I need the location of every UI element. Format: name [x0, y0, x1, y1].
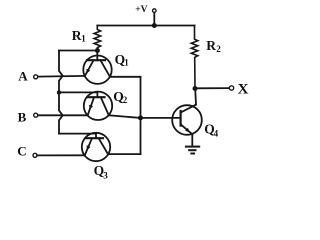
node input C terminal	[33, 153, 37, 157]
wire base bus vertical with crossover jogs	[59, 51, 63, 134]
svg-text:2: 2	[123, 95, 128, 105]
wire Q2 base	[59, 92, 97, 97]
svg-text:+V: +V	[135, 5, 147, 15]
wire Q2 collector to bus	[109, 115, 141, 118]
wire top supply rail	[97, 25, 194, 27]
wire Q4 emitter lead	[191, 134, 193, 146]
svg-text:R: R	[72, 28, 82, 43]
svg-text:B: B	[18, 110, 27, 125]
transistor Q4	[172, 105, 202, 135]
svg-text:A: A	[18, 69, 28, 84]
wire base bus bottom (to Q3)	[59, 134, 96, 139]
transistor Q1	[83, 51, 111, 84]
wire Q3 collector to bus	[108, 153, 141, 155]
wire +V lead	[153, 13, 155, 26]
svg-text:C: C	[17, 144, 26, 159]
wire Q1 collector to bus	[110, 76, 141, 78]
node junction collector bus/Q4 base	[138, 115, 143, 120]
svg-text:R: R	[206, 38, 216, 53]
node junction R2/X/Q4 collector	[193, 86, 198, 91]
transistor Q3	[82, 133, 110, 161]
wire input A	[38, 75, 85, 78]
wire collector bus vertical	[140, 77, 142, 154]
wire output X	[195, 87, 229, 89]
ground	[186, 147, 199, 154]
resistor R1	[94, 26, 101, 51]
node +V terminal	[153, 9, 157, 13]
svg-text:2: 2	[216, 44, 221, 54]
svg-text:4: 4	[214, 129, 219, 139]
transistor Q2	[84, 92, 112, 120]
wire input C	[37, 154, 85, 156]
wire Q4 base	[141, 117, 181, 119]
node input A terminal	[34, 75, 38, 79]
resistor R2	[191, 26, 198, 89]
svg-text:3: 3	[103, 171, 108, 181]
node junction bus/Q2 base	[57, 90, 61, 94]
wire Q4 collector lead	[194, 89, 197, 105]
wire input B	[38, 114, 88, 116]
node junction rail/+V	[152, 23, 157, 28]
node X terminal	[229, 86, 233, 90]
wire base bus top (to R1/Q1)	[59, 50, 97, 52]
svg-text:X: X	[238, 81, 249, 97]
node input B terminal	[34, 113, 38, 117]
svg-text:1: 1	[81, 34, 86, 44]
node junction R1/bus/Q1 base	[95, 48, 100, 53]
svg-text:1: 1	[124, 58, 129, 68]
